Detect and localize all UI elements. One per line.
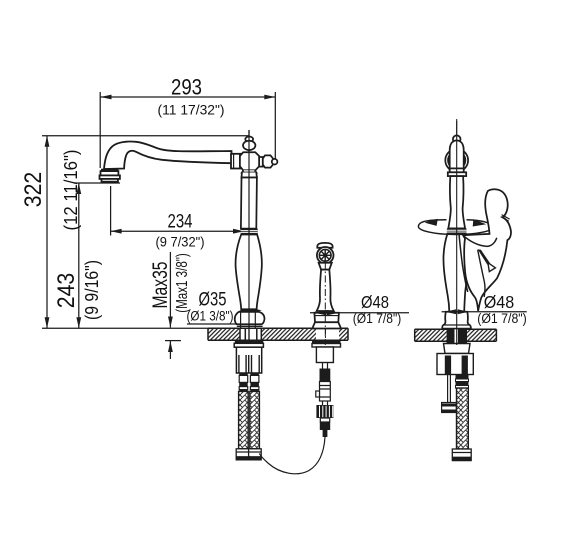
sprayer underdeck flange dark <box>312 340 341 343</box>
rotation arrow left <box>425 219 438 226</box>
arrow 293 left <box>101 95 112 100</box>
nut slots <box>445 356 451 375</box>
right braided hose <box>457 388 469 449</box>
baseline ext bottom <box>42 327 208 329</box>
hub body octagon <box>240 152 259 170</box>
sprayer collar <box>314 313 339 323</box>
upper column <box>241 178 257 229</box>
right lower column <box>443 234 469 312</box>
spout tube <box>104 142 232 169</box>
svg-text:243: 243 <box>53 273 80 309</box>
leader O48 middle <box>310 312 409 314</box>
deck outline <box>208 328 348 340</box>
right collar flange <box>448 172 466 176</box>
aerator flange <box>101 171 119 175</box>
stud rod <box>448 375 451 403</box>
aerator ring <box>100 175 120 179</box>
hub right neck <box>259 157 263 167</box>
svg-text:Max35: Max35 <box>148 261 172 308</box>
arrow 243 bottom <box>76 317 81 328</box>
dim 293 line <box>101 96 276 98</box>
hub right bulb <box>263 155 273 167</box>
sprayer thin neck <box>323 363 328 369</box>
svg-text:Ø48: Ø48 <box>361 292 389 312</box>
mounting block <box>236 347 261 373</box>
stud knob <box>442 403 457 413</box>
base rings <box>237 312 263 328</box>
handle inner face line <box>478 250 485 297</box>
right base <box>442 312 471 329</box>
handle joint lines <box>501 215 510 222</box>
rotation arrow right <box>473 219 487 226</box>
centerline right <box>456 119 458 345</box>
arrow Max35 down <box>168 317 173 328</box>
aerator joint band <box>102 169 118 171</box>
handle back edge line <box>459 235 468 292</box>
right column ring band <box>447 228 467 234</box>
tube fittings <box>239 373 259 391</box>
base bell <box>235 312 265 324</box>
sprayer dark segment <box>320 369 331 382</box>
handle dark wedge stroke <box>478 249 491 264</box>
centerline faucet left <box>248 130 250 341</box>
svg-text:293: 293 <box>171 74 202 99</box>
sprayer side tab <box>316 391 320 397</box>
leader O48 right <box>442 311 527 313</box>
centerline sprayer overlay <box>324 262 326 345</box>
column ring band <box>241 229 258 235</box>
rotation ellipse top-left arc <box>418 220 446 227</box>
base joint dark lens <box>239 309 262 312</box>
right hub circle <box>445 149 468 172</box>
dim 293 ext left <box>99 92 101 168</box>
dim Max35 ext deck bottom <box>165 340 181 342</box>
arrow O48 right-view left <box>445 309 456 314</box>
arrow 243 top <box>76 183 81 194</box>
arrow 322 bottom <box>45 317 50 328</box>
sprayer knurled coupling <box>316 405 333 418</box>
rotation ellipse top-right arc <box>467 220 493 228</box>
centerline left overlay <box>248 130 250 341</box>
dim 243 ext top <box>74 182 120 184</box>
sprayer head circle <box>317 247 334 264</box>
dim 322 ext top <box>42 135 249 137</box>
centerline right overlay <box>456 121 458 345</box>
hose end nuts <box>236 449 261 460</box>
arrow 293 right <box>264 95 275 100</box>
mounting block slots <box>239 355 259 373</box>
sprayer band segment <box>316 382 331 402</box>
dim Max35 line upper <box>169 252 171 328</box>
sprayer underdeck flange <box>312 344 341 348</box>
deck hatch mid segment <box>261 328 316 340</box>
dim 322 line <box>46 136 48 328</box>
svg-text:322: 322 <box>20 172 47 208</box>
svg-text:(Max1 3/8"): (Max1 3/8") <box>174 253 191 313</box>
dim 234 ext left <box>110 186 112 236</box>
leader O35 <box>187 323 244 325</box>
arrow O48 mid left <box>314 310 326 315</box>
vase body <box>236 235 262 310</box>
right trapezoid block <box>444 344 471 354</box>
sprayer head cap <box>317 243 332 248</box>
dim 243 line <box>78 183 80 328</box>
right upper column <box>448 176 465 228</box>
dim Max35 line lower <box>169 341 171 359</box>
sprayer cord curve <box>259 437 325 474</box>
right hub inner dark circle <box>448 151 466 169</box>
mounting rim dark <box>235 340 263 343</box>
finial tip ball <box>245 137 253 142</box>
right collar <box>450 168 464 172</box>
arrow 322 top <box>45 136 50 147</box>
handle silhouette <box>463 189 511 311</box>
right finial tip ball <box>453 135 461 143</box>
sprayer head spokes <box>319 249 331 261</box>
arrow O48 mid right <box>327 310 339 315</box>
svg-text:(Ø1 3/8"): (Ø1 3/8") <box>187 309 234 324</box>
right castellated nut <box>437 354 473 375</box>
right hose fitting <box>456 375 469 389</box>
svg-text:Ø48: Ø48 <box>484 292 515 312</box>
spout joint collar <box>231 154 242 169</box>
sprayer neck trapezoid <box>319 263 332 270</box>
arrow O48 right-view right <box>458 309 469 314</box>
dim 293 ext right <box>274 92 276 161</box>
right finial bullet <box>450 140 464 170</box>
rotation ellipse bottom arc <box>418 227 492 235</box>
handle bulb-skirt boundary <box>463 235 497 246</box>
svg-text:Ø35: Ø35 <box>199 290 227 311</box>
svg-text:234: 234 <box>168 211 193 233</box>
sprayer centerline <box>325 246 327 347</box>
sprayer hose block <box>316 347 333 363</box>
deck hatch left segment <box>208 328 240 340</box>
dim 234 line <box>111 230 244 232</box>
svg-text:(Ø1 7/8"): (Ø1 7/8") <box>477 311 527 326</box>
svg-text:(11 17/32"): (11 17/32") <box>158 103 225 118</box>
svg-text:(9 9/16"): (9 9/16") <box>81 260 102 320</box>
arrow 234 right <box>233 229 244 234</box>
sprayer bell foot <box>312 322 341 328</box>
handle small triangle <box>488 263 496 272</box>
arrow Max35 up <box>168 341 173 352</box>
deck hatch right segment <box>339 328 348 340</box>
svg-text:(9 7/32"): (9 7/32") <box>156 235 205 250</box>
mounting flange <box>234 343 263 347</box>
aerator lip <box>102 179 118 182</box>
sprayer lower stack <box>320 418 329 422</box>
right hose end nut <box>452 449 471 461</box>
sprayer coupler stem <box>323 401 328 405</box>
svg-text:(12 11/16"): (12 11/16") <box>61 150 81 231</box>
finial ball <box>243 141 255 150</box>
braided hose left <box>239 391 260 448</box>
sprayer body <box>317 270 334 311</box>
base inner shank lines <box>241 312 256 328</box>
neck flare under hub <box>242 170 256 172</box>
arrow 234 left <box>111 229 122 234</box>
right shank dark <box>447 329 467 343</box>
through-deck shank left <box>240 328 261 340</box>
hub right end ball <box>272 159 278 165</box>
